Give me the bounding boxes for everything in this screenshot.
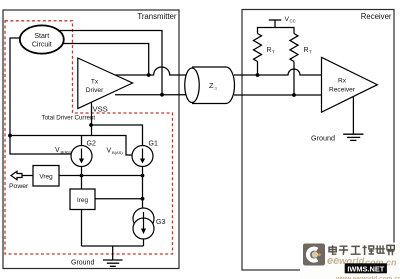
wire start-circuit left arm down to G2 input bbox=[10, 38, 71, 154]
junction node G1 bottom rail bbox=[141, 174, 145, 178]
svg-text:Ireg: Ireg bbox=[77, 197, 88, 204]
svg-text:Tx: Tx bbox=[91, 79, 99, 86]
wire bias rail to G1 left input bbox=[10, 136, 133, 156]
junction node Ireg to G3 bbox=[141, 197, 145, 201]
svg-text:CC: CC bbox=[290, 19, 296, 24]
wire G3 bottom stub bbox=[143, 239, 145, 246]
op-amp U2 Rx receiver bbox=[322, 57, 378, 112]
svg-text:R: R bbox=[267, 47, 272, 54]
svg-text:R: R bbox=[304, 47, 309, 54]
wire Vreg output rail bbox=[59, 175, 143, 177]
wire VSS stub from Tx driver bbox=[91, 102, 93, 136]
label RT right bbox=[304, 47, 313, 55]
regulator Ireg bbox=[70, 189, 95, 210]
resistor RT right bbox=[290, 34, 298, 62]
wire lower differential output line bbox=[115, 94, 186, 96]
wire Ireg output to G3 branch bbox=[95, 198, 143, 200]
op-amp U1 Tx driver bbox=[78, 58, 133, 109]
power input arrow bbox=[11, 171, 33, 179]
junction node RT left on upper line bbox=[256, 73, 260, 77]
wire Vcc distribution rail bbox=[258, 28, 295, 34]
ground (receiver) bbox=[343, 134, 363, 140]
svg-text:G1: G1 bbox=[149, 141, 158, 148]
regulator Vreg bbox=[33, 166, 59, 187]
label Z0 bbox=[209, 81, 218, 91]
watermark eeworld.com.cn bbox=[327, 255, 397, 268]
junction node on upper differential line bbox=[147, 73, 151, 77]
svg-text:T: T bbox=[272, 50, 275, 55]
watermark IWMS badge bbox=[345, 263, 387, 273]
svg-text:G3: G3 bbox=[156, 219, 165, 226]
wire ground symbol stub bbox=[112, 246, 114, 260]
svg-text:Ground: Ground bbox=[71, 260, 94, 267]
svg-text:Power: Power bbox=[9, 183, 29, 190]
wire G2 bottom to Ireg top bbox=[81, 167, 83, 190]
svg-text:Transmitter: Transmitter bbox=[137, 12, 177, 21]
wire upper differential output line with crossover hop bbox=[113, 67, 187, 75]
junction node VSS bbox=[89, 123, 93, 127]
label Vbias for G1 bbox=[107, 148, 124, 156]
wire Rx ground stub bbox=[352, 97, 354, 135]
svg-text:VSS: VSS bbox=[93, 105, 108, 114]
wire G1 bottom down to G3 top bbox=[142, 167, 144, 209]
svg-text:G2: G2 bbox=[87, 141, 96, 148]
watermark background bbox=[300, 243, 400, 279]
junction node RT right on lower line bbox=[292, 93, 296, 97]
svg-text:Ground: Ground bbox=[311, 134, 335, 143]
svg-text:Receiver: Receiver bbox=[329, 87, 356, 94]
svg-text:Vreg: Vreg bbox=[39, 174, 53, 181]
wire bottom ground rail bbox=[82, 245, 144, 247]
junction node on lower differential line bbox=[160, 93, 164, 97]
svg-text:Circuit: Circuit bbox=[32, 42, 52, 49]
current source G2 bbox=[71, 146, 92, 167]
ground (transmitter) bbox=[103, 260, 123, 266]
resistor RT left bbox=[254, 34, 262, 62]
label Vcc bbox=[285, 16, 296, 24]
receiver block outline bbox=[242, 10, 394, 271]
svg-text:T: T bbox=[309, 50, 312, 55]
svg-text:Total Driver Current: Total Driver Current bbox=[42, 115, 96, 122]
svg-text:Start: Start bbox=[34, 33, 49, 40]
label RT left bbox=[267, 47, 276, 55]
svg-text:V: V bbox=[107, 148, 112, 155]
svg-text:ee: ee bbox=[327, 255, 339, 267]
svg-text:www.eeworld.com.cn: www.eeworld.com.cn bbox=[335, 276, 400, 279]
wire RT left bottom lead bbox=[257, 62, 259, 76]
wire Ireg bottom to ground rail bbox=[81, 210, 83, 247]
svg-text:V: V bbox=[55, 147, 60, 154]
start circuit U1 bbox=[20, 25, 64, 53]
label Vbias for G2 bbox=[55, 147, 72, 155]
watermark logo square bbox=[303, 244, 325, 266]
junction node G2 bottom rail bbox=[80, 174, 84, 178]
svg-text:Driver: Driver bbox=[86, 87, 104, 94]
transmission line Z0 cylinder bbox=[185, 67, 235, 104]
svg-text:Z: Z bbox=[209, 81, 214, 90]
watermark chinese text bbox=[329, 245, 394, 255]
svg-text:Receiver: Receiver bbox=[361, 12, 392, 21]
wire VSS node to G1 top bbox=[91, 125, 143, 146]
dashed red total-driver-current region outline bbox=[5, 21, 173, 254]
wire receiver upper line with crossover hop bbox=[234, 69, 322, 75]
wire start-circuit upper feedback to lower differential line bbox=[59, 31, 162, 95]
wire G2 top feed bbox=[81, 136, 83, 147]
current source G3 (double circle) bbox=[133, 208, 154, 239]
transmitter block outline bbox=[3, 10, 179, 269]
svg-text:B(AS): B(AS) bbox=[112, 150, 123, 155]
junction node on bias rail bbox=[8, 134, 12, 138]
wire RT right bottom lead bbox=[293, 62, 295, 96]
svg-text:IWMS.NET: IWMS.NET bbox=[347, 265, 384, 274]
current source G1 bbox=[132, 146, 153, 167]
wire start-circuit lower feedback to upper differential line bbox=[63, 44, 149, 76]
power rail Vcc symbol bbox=[269, 20, 282, 28]
wire receiver lower line bbox=[234, 94, 322, 96]
svg-text:B(AS): B(AS) bbox=[61, 150, 72, 155]
svg-text:Rx: Rx bbox=[338, 78, 347, 85]
